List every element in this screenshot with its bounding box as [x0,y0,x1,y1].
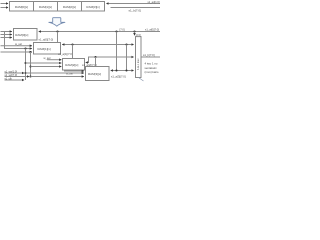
RAM[2][x] block [63,59,85,71]
wire down to RAM3 [95,57,97,67]
mux body [136,37,142,78]
node x126 join [125,69,127,71]
wire s1_a3 out [111,70,134,72]
top output wire s1_ad [107,3,161,5]
top input wire 2 [1,7,9,9]
RAM[1][x] block [34,43,61,55]
input wire b0-2 [1,34,12,36]
svg-text:s1_b[7:0]: s1_b[7:0] [143,53,155,57]
wire s1_a2 out [86,57,134,63]
wire s1_b out [142,56,161,58]
top RAM array outer box [10,2,105,12]
cell divider 1 [33,2,35,12]
svg-text:s1_ad[1:0]: s1_ad[1:0] [148,0,160,4]
node a2-b3 [94,56,96,58]
svg-text:[2:0]: [2:0] [136,34,141,37]
RAM[3][x] block [86,67,110,81]
wire a1 tap down [126,45,128,71]
wire wd to RAM3 [31,76,84,78]
wire down to RAM2 [72,45,74,59]
wire down to RAM1 [57,32,59,43]
annotation leader [139,78,144,82]
w_sel wire 1 [1,45,32,47]
node x116 tap [115,30,117,32]
svg-text:4-to-1 mux: 4-to-1 mux [137,58,140,70]
svg-text:RAM[1][x]: RAM[1][x] [38,47,51,51]
input wire b0-1 [1,31,12,33]
svg-text:RAM[2][x]: RAM[2][x] [65,63,78,67]
svg-text:(mux) kairo: (mux) kairo [145,70,159,74]
trunk wire wa [5,32,32,49]
mux top stub arrow [134,32,136,36]
wire s1_a0 out [39,31,160,33]
node trunk wa tap [24,47,26,49]
wire wd to RAM2 [31,66,62,68]
wire wa to RAM2 [26,62,62,64]
top input wire 1 [1,3,9,5]
svg-text:w_sel: w_sel [66,72,73,76]
node mux top [133,30,135,32]
svg-text:RAM[3][x]: RAM[3][x] [86,5,99,9]
blue transform arrow [49,18,65,27]
cell divider 3 [81,2,83,12]
trunk wire wd [1,51,32,53]
vertical bus wa [25,49,27,81]
svg-text:RAM[1][x]: RAM[1][x] [39,5,52,9]
w_sel wire 3 [64,70,84,72]
svg-text:[7:0]: [7:0] [120,27,125,31]
svg-text:RAM[3][x]: RAM[3][x] [88,72,101,76]
node bus wa b2 [24,62,26,64]
node a0-b1 [56,30,58,32]
svg-text:s1_a[3][7:0]: s1_a[3][7:0] [111,74,126,78]
node a1 tap [125,43,127,45]
arrow into mux a3 [127,70,134,72]
node x116 join [115,69,117,71]
node trunk wd tap [29,51,31,53]
cell divider 2 [57,2,59,12]
svg-text:RAM[0][x]: RAM[0][x] [15,5,28,9]
RAM[0][x] block [14,29,38,41]
svg-text:s1_a[0][7:0]: s1_a[0][7:0] [145,27,159,31]
svg-text:s1_b[7:0]: s1_b[7:0] [129,8,142,12]
wire wa to RAM3 [26,72,84,74]
port clk arrow [5,79,25,81]
node bus wa b3 [24,72,26,74]
svg-text:s1_a[0][7:0]: s1_a[0][7:0] [39,37,54,41]
wire s1_b top [111,7,161,9]
wire x116 down [116,32,118,71]
port s1_wa arrow [5,72,25,74]
input wire b0-3 [1,37,12,39]
arrow into mux a2 [127,56,134,58]
svg-text:w_sel: w_sel [15,42,22,46]
arrow into mux a1 [127,44,134,46]
node bus wd b3 [29,75,31,77]
port s1_wd arrow [5,76,30,78]
node bus wd b2 [29,65,31,67]
node a1-b2 [71,43,73,45]
svg-text:s1_a[1][7:0]: s1_a[1][7:0] [58,52,73,56]
svg-text:RAM[0][x]: RAM[0][x] [15,33,28,37]
svg-text:RAM[2][x]: RAM[2][x] [63,5,76,9]
svg-text:w_sel: w_sel [44,56,51,60]
vertical bus wd [30,52,32,77]
w_sel wire 2 [47,59,61,61]
wire s1_a1 out [62,44,133,46]
